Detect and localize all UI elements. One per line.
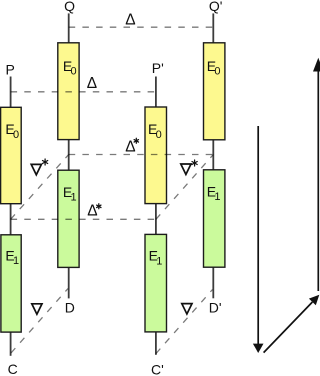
wire: stem E1 to C' (chain 3): [155, 332, 157, 355]
wire: stem E1 to C (chain 1): [10, 332, 12, 356]
box E0 chain 2 (yellow): [58, 43, 79, 140]
wire: stem E1 to D (chain 2): [68, 267, 70, 298]
svg-text:0: 0: [71, 65, 77, 77]
box E1 chain 4 (green): [204, 170, 225, 267]
svg-text:1: 1: [13, 255, 19, 267]
dashed map nabla: C' to D': [156, 290, 213, 354]
wire: stem E1 to D' (chain 4): [212, 267, 214, 298]
box E1 chain 3 (green): [145, 234, 167, 332]
svg-text:1: 1: [214, 191, 220, 203]
wire: stem E0 to E1 (chain 3): [155, 204, 157, 235]
box E1 chain 1 (green): [1, 235, 21, 332]
svg-text:Q': Q': [209, 0, 223, 14]
svg-text:Δ: Δ: [125, 11, 135, 28]
dashed map nabla*: chain3 mid to chain4 mid: [156, 155, 213, 220]
svg-text:P: P: [6, 61, 15, 77]
arrow: diagonal (to upper right): [264, 302, 313, 353]
svg-text:1: 1: [156, 255, 162, 267]
svg-text:D': D': [209, 300, 222, 316]
svg-text:C': C': [151, 361, 164, 376]
wire: stem E0 to E1 (chain 1): [10, 204, 12, 236]
dashed map Delta: P to P': [11, 91, 156, 93]
map label nabla* (left): drawn triangle + asterisk: [31, 164, 41, 174]
svg-text:D: D: [65, 299, 75, 315]
map label nabla* (right): drawn triangle + asterisk: [181, 164, 191, 174]
map label nabla (left): drawn triangle: [32, 304, 42, 314]
dashed map nabla: C to D: [11, 289, 68, 354]
dashed map Delta*: mid chain1 to mid chain3: [11, 218, 156, 220]
wire: stem P to E0 (chain 1): [10, 77, 12, 109]
svg-text:Δ: Δ: [87, 75, 97, 92]
map label nabla (right): drawn triangle: [182, 304, 192, 314]
svg-text:Q: Q: [64, 0, 75, 14]
svg-text:0: 0: [214, 65, 220, 77]
svg-text:C: C: [8, 361, 18, 376]
box E1 chain 2 (green): [58, 170, 79, 267]
svg-text:1: 1: [71, 192, 77, 204]
svg-text:0: 0: [13, 129, 19, 141]
box E0 chain 4 (yellow): [204, 43, 225, 140]
dashed map Delta*: mid chain2 to mid chain4: [69, 154, 214, 156]
box E0 chain 1 (yellow): [1, 107, 22, 203]
arrow: left vertical (downward): [257, 126, 259, 345]
svg-text:P': P': [152, 60, 164, 76]
arrow: right vertical (upward): [317, 71, 319, 292]
wire: stem E0 to E1 (chain 2): [68, 140, 70, 171]
svg-text:0: 0: [156, 129, 162, 141]
dashed map Delta: Q to Q': [69, 26, 214, 28]
wire: stem Q to E0 (chain 2): [68, 13, 70, 43]
svg-text:Δ: Δ: [125, 139, 135, 156]
dashed map nabla*: chain1 mid to chain2 mid: [11, 155, 69, 220]
wire: stem Q' to E0 (chain 4): [212, 13, 214, 43]
wire: stem P' to E0 (chain 3): [155, 77, 157, 109]
box E0 chain 3 (yellow): [145, 107, 167, 204]
wire: stem E0 to E1 (chain 4): [212, 140, 214, 170]
